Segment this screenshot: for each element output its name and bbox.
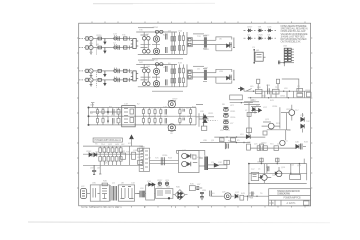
svg-text:CR28: CR28 — [180, 116, 186, 118]
svg-text:CR29: CR29 — [172, 98, 178, 100]
svg-text:CR20: CR20 — [96, 35, 102, 37]
svg-text:SCHEM DIAGRAM: SCHEM DIAGRAM — [277, 193, 290, 196]
svg-text:CR21: CR21 — [280, 96, 286, 98]
svg-text:CR16: CR16 — [230, 117, 236, 119]
svg-text:CR42: CR42 — [86, 151, 92, 153]
svg-text:CR12: CR12 — [204, 35, 210, 37]
svg-text:POWER AMP PCB: POWER AMP PCB — [284, 197, 301, 200]
svg-text:CR41: CR41 — [257, 162, 263, 164]
svg-text:POWER AMP MODULE A1: POWER AMP MODULE A1 — [95, 139, 122, 142]
svg-text:CR21: CR21 — [208, 113, 214, 115]
svg-text:CR31: CR31 — [204, 49, 210, 51]
svg-text:STEREO AMPLIFIER MOD: STEREO AMPLIFIER MOD — [277, 190, 300, 193]
svg-text:CR18: CR18 — [305, 90, 311, 92]
svg-text:CR11: CR11 — [137, 157, 143, 159]
svg-text:NOTE: SCHEMATIC NO 22071 REV C: NOTE: SCHEMATIC NO 22071 REV C — [81, 206, 122, 209]
svg-text:CR27: CR27 — [247, 27, 253, 29]
svg-text:ON 70V MODELS XX: ON 70V MODELS XX — [281, 41, 301, 44]
svg-text:CR34: CR34 — [153, 27, 159, 29]
svg-text:A 22071: A 22071 — [287, 202, 297, 205]
svg-text:CR31: CR31 — [230, 111, 236, 113]
svg-text:PWR: PWR — [249, 198, 254, 200]
svg-text:CR27: CR27 — [157, 180, 163, 182]
svg-text:CR27: CR27 — [251, 100, 257, 102]
svg-text:CR20: CR20 — [261, 143, 267, 145]
svg-text:CR34: CR34 — [272, 106, 278, 108]
svg-text:CR20: CR20 — [258, 34, 264, 36]
svg-text:CR12: CR12 — [157, 187, 163, 189]
svg-text:CR15: CR15 — [286, 109, 292, 111]
svg-text:CR11: CR11 — [153, 59, 159, 61]
